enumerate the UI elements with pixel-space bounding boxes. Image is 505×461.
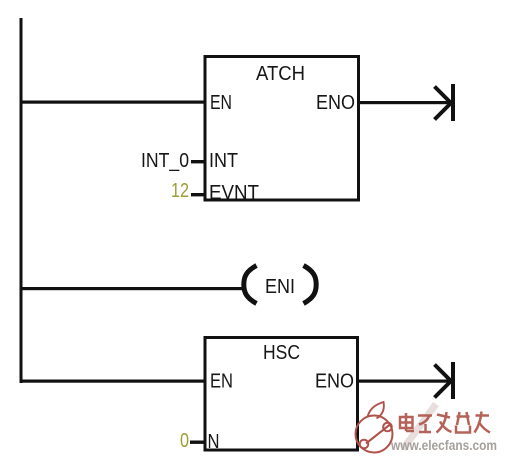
wire HSC ENO out [358, 380, 452, 383]
svg-text:ENI: ENI [265, 276, 295, 298]
svg-text:ATCH: ATCH [256, 63, 305, 85]
tick EVNT [191, 193, 204, 196]
svg-text:INT: INT [209, 150, 238, 172]
tick N [190, 441, 204, 444]
wire ATCH ENO out [359, 101, 452, 104]
tick INT [191, 160, 204, 163]
watermark text 电子发烧友 [400, 412, 490, 433]
svg-text:ENO: ENO [315, 371, 354, 393]
svg-text:EVNT: EVNT [209, 182, 259, 204]
svg-text:INT_0: INT_0 [141, 150, 189, 172]
wire rung 3 to HSC EN [21, 380, 204, 383]
svg-text:EN: EN [210, 92, 232, 114]
svg-text:N: N [208, 431, 220, 453]
arrow 1 [435, 84, 456, 121]
function block ATCH [205, 57, 359, 205]
watermark slash [403, 404, 436, 449]
coil ENI [244, 266, 316, 304]
operand 12 [171, 180, 189, 202]
arrow 2 [435, 362, 456, 399]
svg-text:EN: EN [210, 371, 233, 393]
svg-text:www.elecfans.com: www.elecfans.com [390, 438, 497, 453]
wire rung 2 to ENI coil [21, 287, 244, 290]
watermark text www.elecfans.com [390, 438, 497, 453]
svg-text:HSC: HSC [263, 342, 300, 364]
wire rung 1 to ATCH EN [21, 101, 204, 104]
watermark elecfans logo [356, 402, 393, 453]
svg-text:ENO: ENO [316, 92, 355, 114]
operand 0 [180, 430, 189, 452]
operand INT_0 [141, 150, 189, 172]
svg-text:12: 12 [171, 180, 189, 202]
left power rail [20, 18, 23, 383]
svg-text:0: 0 [180, 430, 189, 452]
function block HSC [205, 338, 358, 454]
